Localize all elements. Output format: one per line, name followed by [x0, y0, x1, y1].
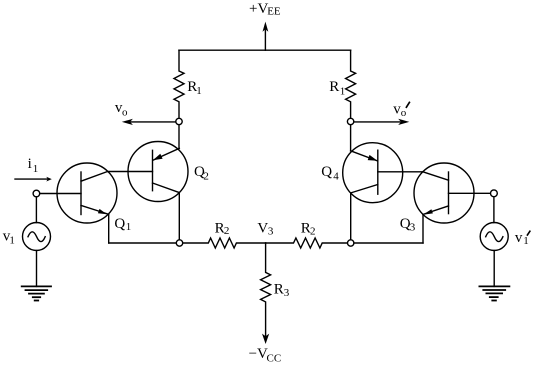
svg-text:1: 1 — [340, 86, 346, 98]
ground left — [22, 286, 51, 300]
transistor Q2 (PNP) — [128, 142, 188, 202]
svg-text:Q: Q — [114, 216, 125, 232]
label v1 — [3, 229, 15, 247]
label vo' — [393, 101, 407, 119]
svg-text:2: 2 — [224, 225, 230, 237]
svg-text:Q: Q — [321, 164, 332, 180]
svg-text:v: v — [515, 230, 523, 246]
wire bottom-left rail — [109, 242, 177, 244]
resistor R2 left — [183, 238, 266, 248]
svg-text:1: 1 — [9, 234, 15, 246]
svg-text:i: i — [28, 156, 32, 172]
resistor R1 left — [174, 50, 184, 118]
label R2 right — [301, 221, 316, 238]
svg-text:1: 1 — [196, 85, 202, 97]
vo output arrow — [122, 119, 176, 125]
wire Q1 base — [40, 193, 81, 195]
wire bottom-right rail — [354, 242, 423, 244]
label R3 — [274, 281, 290, 299]
svg-text:1: 1 — [523, 235, 529, 247]
svg-text:3: 3 — [284, 287, 290, 299]
source v1 (AC) — [23, 223, 51, 251]
node vo' — [347, 118, 353, 124]
power -VCC arrow — [262, 334, 269, 344]
label -VCC — [249, 346, 282, 364]
resistor R1 right — [346, 50, 356, 118]
label R1 left — [187, 79, 201, 97]
source v1' (AC) — [480, 223, 508, 251]
label v1' — [515, 230, 529, 247]
wire Q4 collector down — [350, 193, 352, 240]
svg-text:2: 2 — [203, 170, 209, 182]
wire vo node to Q2 emitter — [178, 125, 180, 149]
wire Q4 base to Q3 collector — [378, 171, 423, 173]
label Q1 — [114, 216, 131, 233]
node Q1 base / v1 source — [33, 190, 40, 197]
svg-text:2: 2 — [310, 226, 316, 238]
ground right — [479, 286, 509, 300]
svg-text:o: o — [401, 107, 407, 119]
label i1 — [28, 156, 39, 175]
svg-text:o: o — [122, 106, 128, 118]
wire Q1 collector to Q2 base — [108, 171, 153, 173]
label Q4 — [321, 164, 339, 183]
node bottom-left — [176, 240, 182, 246]
wire top rail — [179, 49, 351, 51]
power +VEE arrow — [263, 22, 269, 51]
label Q3 — [400, 216, 416, 233]
resistor R2 right — [266, 238, 348, 248]
svg-text:CC: CC — [267, 352, 282, 364]
svg-text:R: R — [274, 281, 284, 297]
wire Q1 emitter down — [108, 214, 110, 243]
svg-text:V: V — [257, 220, 268, 236]
resistor R3 — [261, 243, 271, 336]
node bottom-right — [348, 240, 354, 246]
svg-text:R: R — [329, 79, 339, 95]
annotation i1 arrow — [15, 177, 52, 182]
node Q3 base / v1' source — [491, 190, 498, 197]
wire node to v1' source — [493, 197, 495, 223]
svg-text:4: 4 — [333, 171, 339, 183]
wire v1 to ground — [36, 251, 38, 287]
label R1 right — [329, 79, 345, 98]
label vo — [115, 100, 128, 118]
wire v1' to ground — [493, 251, 495, 287]
wire Q3 emitter down — [422, 214, 424, 243]
transistor Q3 (NPN) — [414, 163, 474, 223]
wire Q3 base — [449, 192, 491, 194]
wire Q2 collector down — [178, 193, 180, 240]
svg-text:+V: +V — [249, 1, 268, 17]
wire node to v1 source — [35, 197, 37, 223]
label R2 left — [215, 220, 230, 237]
transistor Q4 (PNP) — [343, 143, 403, 203]
svg-text:3: 3 — [268, 226, 274, 238]
vo' output arrow — [354, 119, 410, 125]
transistor Q1 (NPN) — [57, 163, 117, 223]
svg-text:EE: EE — [267, 6, 281, 18]
label Q2 — [194, 164, 209, 182]
label +VEE — [249, 1, 281, 18]
svg-text:3: 3 — [410, 221, 416, 233]
svg-text:−V: −V — [249, 346, 268, 362]
svg-text:1: 1 — [126, 221, 132, 233]
wire Q4 emitter up — [350, 125, 352, 151]
label V3 — [257, 220, 274, 237]
svg-text:1: 1 — [33, 163, 39, 175]
node vo (open circle) — [176, 118, 182, 124]
